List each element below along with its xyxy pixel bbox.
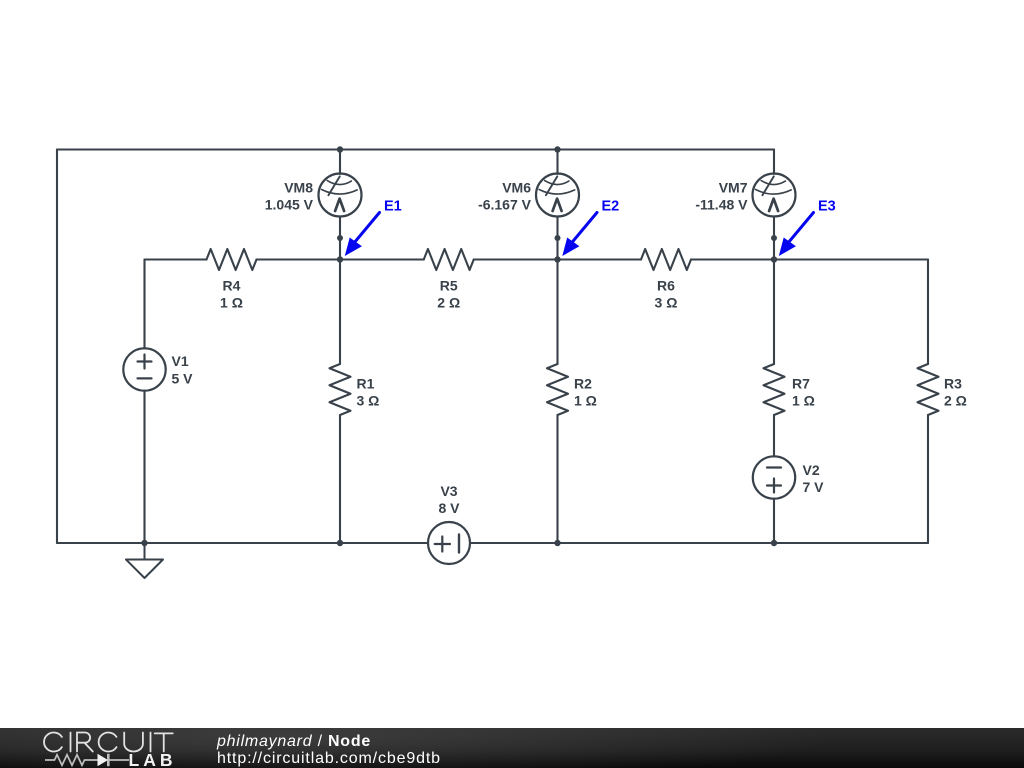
resistor R1 [330, 364, 351, 415]
node dot VM6 terminal [555, 235, 561, 241]
wire main rail seg1 [145, 258, 207, 260]
svg-text:V2: V2 [803, 462, 820, 478]
svg-text:VM7: VM7 [719, 180, 748, 196]
node dot R1 bottom [337, 540, 343, 546]
svg-text:R4: R4 [223, 278, 241, 294]
resistor R5 [424, 249, 474, 270]
svg-text:1.045 V: 1.045 V [265, 196, 314, 212]
node dot ground [141, 540, 147, 546]
svg-text:R2: R2 [574, 376, 592, 392]
svg-text:-11.48 V: -11.48 V [695, 196, 748, 212]
svg-text:1 Ω: 1 Ω [792, 393, 815, 409]
svg-text:2 Ω: 2 Ω [944, 393, 967, 409]
svg-text:8 V: 8 V [438, 500, 460, 516]
wire main rail seg2 [257, 258, 424, 260]
logo CIRCUIT [44, 733, 173, 752]
node E1 dot [337, 256, 343, 262]
node E1 arrow [354, 213, 380, 244]
svg-text:3 Ω: 3 Ω [655, 295, 678, 311]
svg-text:R7: R7 [792, 376, 810, 392]
svg-text:R6: R6 [657, 278, 675, 294]
wire bottom rail right [470, 542, 928, 544]
svg-text:V1: V1 [172, 353, 189, 369]
node dot top VM8 [337, 146, 343, 152]
svg-text:5 V: 5 V [172, 371, 194, 387]
wire R2 branch top [556, 260, 558, 365]
ground [126, 543, 163, 578]
wire left rail [56, 150, 58, 544]
node E3 dot [771, 256, 777, 262]
svg-text:E1: E1 [384, 199, 402, 215]
voltage source V1 [123, 348, 165, 390]
node dot top VM6 [554, 146, 560, 152]
node E2 dot [554, 256, 560, 262]
svg-text:R1: R1 [357, 376, 375, 392]
resistor R3 [918, 364, 939, 415]
svg-text:R3: R3 [944, 376, 962, 392]
voltage source V3 [428, 522, 470, 564]
voltmeter VM8 [319, 150, 362, 260]
logo resistor-diode symbol [45, 754, 129, 766]
svg-text:E3: E3 [818, 199, 836, 215]
wire bottom rail left [57, 542, 428, 544]
wire V1 branch top [143, 260, 145, 349]
voltmeter VM6 [536, 150, 579, 260]
voltage source V2 [753, 456, 795, 498]
wire V2 bottom [773, 499, 775, 543]
node dot VM8 terminal [337, 235, 343, 241]
wire main rail seg3 [474, 258, 641, 260]
svg-text:-6.167 V: -6.167 V [478, 196, 532, 212]
wire R1 branch bottom [339, 415, 341, 543]
resistor R2 [547, 364, 568, 415]
bottom bar [0, 728, 1024, 768]
bar text line 1 [217, 733, 371, 751]
svg-text:V3: V3 [440, 483, 457, 499]
wire R2 branch bottom [556, 415, 558, 543]
svg-text:E2: E2 [602, 199, 620, 215]
wire top rail [57, 148, 774, 150]
resistor R7 [764, 364, 785, 415]
wire R3 branch top [927, 260, 929, 365]
svg-text:R5: R5 [440, 278, 458, 294]
node dot V2 bottom [771, 540, 777, 546]
node dot VM7 terminal [771, 235, 777, 241]
node E2 arrow [572, 213, 598, 244]
wire V1 branch bottom [143, 391, 145, 543]
svg-text:1 Ω: 1 Ω [574, 393, 597, 409]
wire R1 branch top [339, 260, 341, 365]
svg-text:1 Ω: 1 Ω [220, 295, 243, 311]
bar text line 2 [217, 750, 441, 768]
svg-text:VM6: VM6 [502, 180, 531, 196]
svg-text:2 Ω: 2 Ω [437, 295, 460, 311]
resistor R6 [641, 249, 691, 270]
svg-text:3 Ω: 3 Ω [357, 393, 380, 409]
resistor R4 [207, 249, 257, 270]
svg-text:LAB: LAB [129, 750, 177, 768]
node E3 arrow [788, 213, 814, 244]
voltmeter VM7 [753, 150, 796, 260]
wire R7 branch top [773, 260, 775, 365]
wire R3 branch bottom [927, 415, 929, 543]
wire main rail seg4 [691, 258, 928, 260]
svg-text:VM8: VM8 [284, 180, 313, 196]
svg-text:7 V: 7 V [803, 479, 825, 495]
node dot R2 bottom [554, 540, 560, 546]
wire R7 to V2 [773, 415, 775, 457]
